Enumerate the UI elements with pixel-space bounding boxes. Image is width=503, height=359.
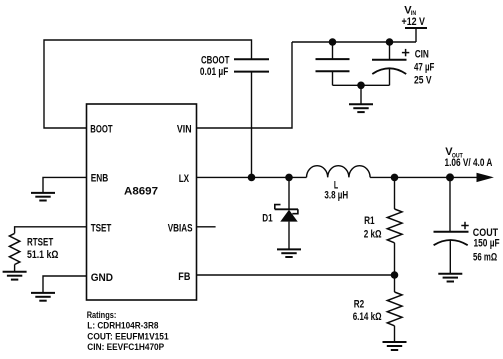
capacitor CIN polarized (372, 60, 407, 74)
svg-text:CIN: EEVFC1H470P: CIN: EEVFC1H470P (87, 342, 164, 352)
ground COUT (438, 274, 462, 282)
capacitor input bypass (unlabeled ceramic) (316, 59, 350, 71)
svg-text:TSET: TSET (91, 223, 112, 235)
node VIN terminal stem (415, 28, 417, 42)
ground input caps (349, 104, 373, 112)
svg-text:R1: R1 (364, 215, 375, 227)
svg-text:A8697: A8697 (124, 186, 158, 198)
svg-text:R2: R2 (354, 299, 364, 311)
svg-text:56 mΩ: 56 mΩ (473, 252, 497, 264)
svg-text:47 µF: 47 µF (414, 61, 435, 73)
svg-text:51.1 kΩ: 51.1 kΩ (27, 249, 59, 261)
svg-text:CBOOT: CBOOT (201, 54, 230, 66)
wire input bypass cap bottom stem (332, 71, 334, 85)
svg-text:D1: D1 (262, 213, 272, 225)
svg-text:150 µF: 150 µF (474, 237, 500, 249)
resistor R2 (387, 292, 402, 326)
wire COUT bottom stem (449, 240, 451, 274)
wire R2 bottom stem (394, 326, 396, 342)
wire RTSET bottom stem (14, 265, 16, 272)
wire D1 cathode stem (288, 177, 290, 209)
ground ENB (31, 193, 55, 201)
svg-text:BOOT: BOOT (90, 124, 112, 136)
wire input ground stem (360, 85, 362, 104)
wire input bypass cap top stem (332, 42, 334, 59)
wire FB pin to divider (197, 274, 395, 276)
svg-text:CIN: CIN (415, 49, 429, 61)
wire COUT top stem (449, 177, 451, 231)
capacitor COUT polarized (434, 232, 469, 245)
svg-text:LX: LX (179, 173, 190, 185)
svg-text:VIN: VIN (177, 124, 192, 136)
op-amp U1 regulator IC A8697 box (87, 104, 197, 300)
resistor RTSET (9, 233, 19, 264)
wire inductor to VOUT arrow (370, 176, 479, 178)
wire LX pin to inductor (197, 176, 307, 178)
node COUT/VOUT junction (446, 173, 454, 181)
svg-text:Ratings:: Ratings: (87, 310, 117, 320)
wire R1 top stem (394, 177, 396, 209)
wire VIN pin to input rail riser (197, 42, 293, 128)
node D1/LX junction (285, 174, 293, 182)
wire R1 bottom stem (394, 243, 396, 275)
wire GND pin to ground (43, 276, 87, 293)
wire input caps bottom rail (333, 84, 390, 86)
ground D1 (277, 249, 301, 257)
svg-text:L: CDRH104R-3R8: L: CDRH104R-3R8 (87, 321, 158, 331)
node CIN rail junction (386, 38, 394, 46)
capacitor CBOOT (234, 59, 269, 71)
svg-text:RTSET: RTSET (27, 236, 53, 248)
resistor R1 (387, 209, 402, 243)
node R1/VOUT junction (391, 174, 399, 182)
wire CBOOT bottom to LX line (251, 72, 253, 178)
wire D1 anode stem (288, 222, 290, 250)
wire TSET pin to RTSET (15, 227, 87, 234)
svg-text:ENB: ENB (91, 173, 109, 185)
node VOUT arrow head (477, 173, 494, 182)
wire VBIAS stub (197, 226, 216, 228)
svg-text:1.06 V/ 4.0 A: 1.06 V/ 4.0 A (445, 157, 493, 169)
diode D1 schottky (275, 205, 298, 222)
ground R2 (383, 342, 407, 350)
ground GND pin (31, 293, 55, 301)
wire BOOT loop from BOOT pin up and over to CBOOT (44, 40, 252, 128)
node CBOOT/LX junction (248, 174, 256, 182)
svg-text:3.8 µH: 3.8 µH (324, 189, 348, 201)
svg-text:COUT: EEUFM1V151: COUT: EEUFM1V151 (87, 331, 168, 341)
node plus sign COUT (461, 222, 468, 229)
svg-text:2 kΩ: 2 kΩ (364, 228, 382, 240)
wire CIN bottom stem (389, 68, 391, 85)
svg-text:+12 V: +12 V (402, 16, 426, 28)
wire CIN top stem (389, 42, 391, 60)
wire input rail (292, 41, 416, 43)
wire ENB pin to ground (43, 177, 87, 193)
svg-text:GND: GND (91, 272, 113, 284)
node input cap ground junction (357, 82, 365, 90)
node bypass cap rail junction (329, 38, 337, 46)
node VIN terminal bar (405, 27, 427, 29)
svg-text:FB: FB (178, 271, 190, 283)
inductor L (307, 166, 371, 178)
svg-text:6.14 kΩ: 6.14 kΩ (353, 311, 382, 323)
node R1/R2/FB junction (391, 271, 399, 279)
svg-text:0.01 µF: 0.01 µF (200, 66, 229, 78)
node plus sign CIN (402, 49, 409, 56)
svg-text:25 V: 25 V (414, 75, 432, 87)
ground RTSET (3, 272, 27, 280)
svg-text:VBIAS: VBIAS (168, 223, 193, 235)
wire R2 top stem (394, 275, 396, 292)
